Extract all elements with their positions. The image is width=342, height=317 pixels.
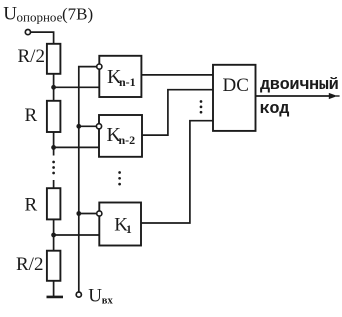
- wire Uвх to K1 circle input: [79, 213, 97, 215]
- wire Kn-2 output to DC: [142, 90, 213, 135]
- svg-text:вх: вх: [102, 296, 114, 307]
- label Kn-2: [107, 124, 136, 147]
- svg-text:n-1: n-1: [119, 75, 136, 89]
- junction Uвх to Kn-2: [76, 124, 81, 129]
- junction node tap n-2: [51, 145, 56, 150]
- svg-text:1: 1: [126, 224, 132, 236]
- wire R/2 to R: [53, 74, 55, 101]
- resistor R lower: [47, 188, 61, 219]
- wire R lower to R/2 bottom: [53, 219, 55, 250]
- label Uвх: [88, 286, 113, 307]
- wire R/2 bottom to ground: [53, 281, 55, 297]
- junction node tap 1: [51, 233, 56, 238]
- label Uопорное(7В): [3, 4, 93, 25]
- resistor R upper: [47, 101, 61, 132]
- comparator Kn-2: [99, 115, 142, 157]
- svg-text:(7В): (7В): [62, 5, 93, 24]
- comparator K1: [99, 203, 141, 246]
- svg-text:R: R: [25, 105, 38, 126]
- wire Uвх to Kn-2 circle input: [79, 125, 97, 127]
- svg-text:DC: DC: [223, 75, 249, 96]
- resistor R/2 bottom: [47, 251, 61, 281]
- arrowhead output: [329, 93, 338, 99]
- wire tap 1 to K1 lower input: [54, 234, 100, 236]
- inverting input circle K1: [97, 211, 102, 216]
- wire tap n-1 to Kn-1 lower input: [54, 86, 100, 88]
- wire Uвх bus: [79, 67, 97, 292]
- ellipsis between Kn-2 and K1: [118, 171, 121, 185]
- svg-text:R/2: R/2: [18, 46, 45, 67]
- terminal Uвх: [76, 292, 81, 297]
- decoder DC: [213, 65, 256, 131]
- wire DC output: [256, 95, 332, 97]
- wire ellipsis to R lower: [53, 180, 55, 188]
- svg-text:опорное: опорное: [17, 10, 63, 25]
- terminal Uопорное: [25, 29, 30, 34]
- ellipsis ladder dots: [52, 161, 55, 175]
- ground: [47, 296, 64, 299]
- inverting input circle Kn-2: [96, 124, 101, 129]
- svg-text:код: код: [260, 100, 290, 119]
- wire tap n-2 to Kn-2 lower input: [54, 146, 99, 148]
- resistor R/2 top: [47, 44, 61, 74]
- wire terminal to R/2 top: [31, 32, 54, 44]
- wire Kn-1 output to DC: [141, 74, 213, 76]
- svg-text:n-2: n-2: [119, 133, 136, 147]
- wire R to ellipsis: [53, 132, 55, 156]
- label Kn-1: [107, 66, 136, 89]
- inverting input circle Kn-1: [97, 64, 102, 69]
- svg-text:U: U: [88, 286, 102, 307]
- svg-text:R: R: [25, 195, 38, 216]
- wire K1 output to DC: [141, 121, 213, 223]
- svg-text:R/2: R/2: [16, 254, 43, 275]
- junction Uвх to K1: [76, 211, 81, 216]
- label K1: [114, 214, 132, 236]
- junction node tap n-1: [51, 85, 56, 90]
- comparator Kn-1: [99, 56, 141, 97]
- ellipsis DC inputs: [200, 100, 203, 113]
- svg-text:U: U: [3, 4, 17, 25]
- svg-text:двоичный: двоичный: [260, 76, 339, 95]
